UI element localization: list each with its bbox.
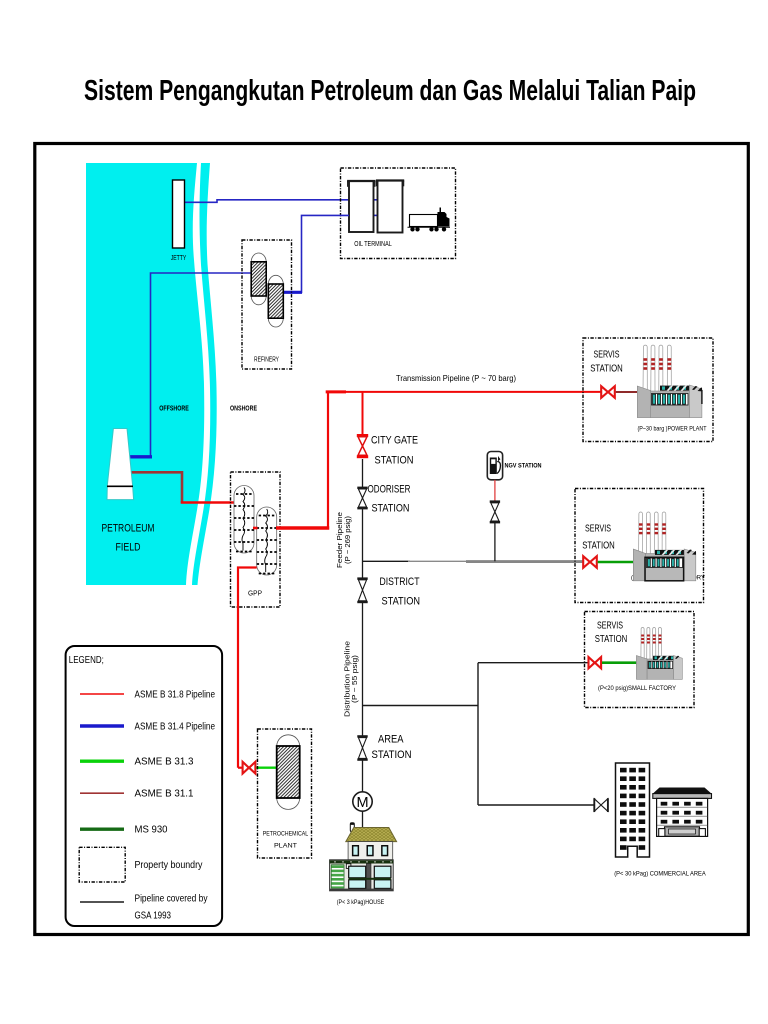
svg-text:ONSHORE: ONSHORE (230, 404, 257, 413)
servis station 1 property boundary (583, 338, 713, 442)
wire red gpp to petrochemical riser (238, 568, 257, 768)
wire black ngv to feeder (494, 523, 496, 562)
svg-text:GSA 1993: GSA 1993 (135, 911, 172, 922)
wire blue refinery to oil terminal (284, 215, 350, 292)
svg-text:(P<20 psig)SMALL FACTORY: (P<20 psig)SMALL FACTORY (598, 685, 676, 692)
svg-text:(P ~ 269 psig): (P ~ 269 psig) (345, 516, 352, 564)
legend box (66, 646, 223, 926)
legend ASME B 31.3 (80, 760, 124, 763)
svg-text:DISTRICT: DISTRICT (380, 576, 420, 588)
svg-text:STATION: STATION (372, 749, 412, 761)
servis 2 valve red (583, 556, 597, 568)
svg-text:PETROLEUM: PETROLEUM (102, 523, 155, 535)
svg-text:(P< 30 kPag) COMMERCIAL AREA: (P< 30 kPag) COMMERCIAL AREA (614, 871, 706, 878)
district valve (357, 579, 367, 602)
refinery vessel 1 (251, 253, 266, 305)
power plant icon (637, 345, 702, 418)
svg-text:M: M (356, 795, 368, 811)
wire blue thick refinery outlet (283, 291, 302, 294)
small factory icon (636, 628, 682, 680)
wire red thick gpp outlet to riser (276, 526, 329, 529)
oil tank 1 (349, 181, 374, 232)
wire dark red to power plant (616, 391, 639, 393)
svg-text:Property boundry: Property boundry (135, 860, 203, 871)
upper windows (352, 845, 388, 856)
legend property boundry (79, 847, 125, 882)
svg-text:SERVIS: SERVIS (597, 621, 623, 632)
wire black distribution branch east (363, 705, 479, 707)
gpp column 1 (234, 486, 254, 554)
legend pipeline covered (80, 901, 124, 903)
gpp property boundary (231, 472, 281, 607)
wire blue between tanks upper (374, 199, 378, 201)
diagram frame (35, 144, 749, 935)
wire red elbow to petrochem valve (238, 767, 242, 769)
legend ASME B 31.4 (80, 724, 124, 727)
wire red into gpp (181, 501, 235, 504)
house roof (346, 828, 397, 842)
truck (408, 208, 451, 232)
legend ASME B 31.8 (80, 693, 124, 695)
lower windows left (349, 866, 366, 878)
wire blue between tanks lower (374, 214, 378, 216)
svg-text:ODORISER: ODORISER (368, 484, 411, 496)
svg-text:CITY GATE: CITY GATE (371, 435, 418, 447)
petrochemical property boundary (258, 729, 312, 858)
wire black odoriser to district (362, 509, 364, 578)
petroleum field platform (107, 429, 134, 500)
svg-text:(P~30 barg )POWER PLANT: (P~30 barg )POWER PLANT (638, 426, 707, 433)
svg-text:ASME B 31.8 Pipeline: ASME B 31.8 Pipeline (135, 690, 216, 701)
svg-text:GPP: GPP (248, 591, 262, 598)
wire red between columns (253, 527, 258, 530)
wire black to servis 3 (478, 662, 588, 664)
servis station 2 property boundary (575, 489, 704, 603)
ngv valve (490, 502, 500, 523)
house chimney (350, 823, 354, 832)
svg-text:Feeder Pipeline: Feeder Pipeline (337, 512, 344, 568)
tall building (616, 763, 650, 857)
ngv station icon (487, 452, 502, 480)
svg-text:AREA: AREA (378, 734, 404, 746)
petrochem valve red (243, 762, 256, 774)
water offshore main (86, 163, 217, 585)
svg-text:(P< 3 kPag)HOUSE: (P< 3 kPag)HOUSE (337, 899, 385, 906)
gpp column 2 (257, 507, 277, 575)
svg-text:PETROCHEMICAL: PETROCHEMICAL (263, 831, 309, 838)
svg-text:ASME B 31.4 Pipeline: ASME B 31.4 Pipeline (135, 722, 216, 733)
svg-text:STATION: STATION (375, 455, 414, 467)
area valve (357, 736, 367, 759)
svg-text:(P ~ 55 psig): (P ~ 55 psig) (350, 655, 359, 703)
wire black feeder branch east (363, 560, 411, 562)
wall box (346, 864, 351, 869)
servis 3 valve red (589, 657, 602, 668)
svg-text:PLANT: PLANT (274, 843, 297, 850)
door (366, 864, 371, 891)
svg-text:SERVIS: SERVIS (594, 350, 620, 361)
svg-text:JETTY: JETTY (171, 255, 187, 262)
commercial valve (594, 799, 607, 811)
svg-text:Transmission Pipeline (P ~ 70: Transmission Pipeline (P ~ 70 barg) (396, 373, 516, 383)
wire red drop to city gate (362, 392, 364, 434)
svg-text:STATION: STATION (595, 634, 628, 645)
meter M (353, 792, 372, 811)
wire green to big factory (598, 561, 635, 564)
wire gray feeder to servis 2 (466, 560, 583, 563)
lower windows right (374, 866, 391, 878)
big factory icon (633, 512, 696, 581)
svg-text:SERVIS: SERVIS (585, 524, 611, 535)
wire blue thick platform feed (128, 455, 152, 458)
svg-text:MS 930: MS 930 (135, 825, 168, 836)
fascia band (330, 860, 394, 863)
petrochemical vessel (277, 735, 300, 810)
jetty (173, 180, 185, 248)
svg-text:OIL TERMINAL: OIL TERMINAL (354, 241, 392, 248)
oil tank 2 (378, 181, 403, 233)
svg-text:STATION: STATION (382, 596, 421, 608)
odoriser valve (357, 488, 367, 508)
svg-text:FIELD: FIELD (116, 542, 141, 554)
water coastline sliver (192, 163, 217, 585)
refinery property boundary (242, 240, 292, 369)
svg-text:LEGEND;: LEGEND; (69, 655, 104, 666)
oil terminal property boundary (341, 168, 456, 259)
svg-text:STATION: STATION (590, 364, 623, 375)
wire black city gate to odoriser (362, 459, 364, 487)
wire gray feeder thin segment (408, 560, 468, 562)
low building (653, 788, 712, 837)
svg-text:ASME B 31.3: ASME B 31.3 (135, 757, 194, 768)
garage door (331, 865, 344, 888)
wire blue jetty to oil terminal (185, 200, 350, 203)
wire dark red field to gpp (131, 472, 183, 502)
svg-text:Sistem Pengangkutan Petroleum: Sistem Pengangkutan Petroleum dan Gas Me… (84, 75, 696, 107)
window mid band (349, 878, 391, 880)
house lower wall (330, 860, 394, 891)
legend ASME B 31.1 (80, 792, 124, 794)
svg-text:NGV STATION: NGV STATION (505, 463, 542, 470)
svg-text:OFFSHORE: OFFSHORE (159, 404, 189, 413)
wire black area to meter (362, 760, 364, 793)
refinery vessel 2 (268, 275, 283, 327)
servis 1 valve red (601, 386, 615, 398)
wire black east riser (477, 663, 479, 805)
svg-text:STATION: STATION (582, 541, 615, 552)
wire black district to area (362, 602, 364, 736)
house base (330, 889, 394, 891)
svg-text:REFINERY: REFINERY (254, 357, 279, 364)
wire green to petrochemical vessel (256, 767, 277, 769)
house upper wall (348, 842, 393, 860)
wire red ngv drop (494, 480, 496, 501)
city gate valve (357, 435, 368, 456)
wire black to commercial area (478, 804, 594, 806)
wire blue field to refinery (151, 273, 252, 457)
svg-text:Pipeline covered by: Pipeline covered by (135, 894, 208, 905)
svg-text:STATION: STATION (372, 503, 410, 515)
transmission pipeline red (327, 391, 601, 393)
wire black meter to house (362, 811, 364, 828)
placeholder groups (159, 180, 349, 413)
servis station 3 property boundary (585, 612, 695, 708)
wire green to small factory (602, 661, 638, 664)
svg-text:ASME B 31.1: ASME B 31.1 (135, 789, 194, 800)
legend MS 930 (80, 828, 124, 831)
